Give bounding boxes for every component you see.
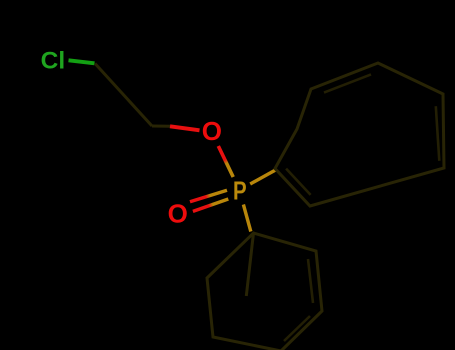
ring2 inner double bond line (bottom edge) xyxy=(284,316,310,341)
svg-text:Cl: Cl xyxy=(41,48,66,75)
bond C2-O1 (red half) xyxy=(170,126,200,130)
ring2 inner double bond line (right edge) xyxy=(308,259,313,303)
ring2 inner line at ipso xyxy=(246,233,253,296)
svg-text:P: P xyxy=(233,176,247,205)
double bond P=O2 line 1 xyxy=(190,190,227,202)
svg-text:O: O xyxy=(168,198,188,228)
ring1 inner double bond line (top edge) xyxy=(324,74,371,92)
benzene ring1 (right phenyl) outline xyxy=(275,63,444,206)
ring1 inner double bond line (lower-left edge) xyxy=(286,169,311,195)
bond C1-C2 xyxy=(95,64,152,127)
bond Cl-C1 (green) xyxy=(69,60,95,63)
bond C2-O1 (carbon half, dark) xyxy=(152,125,170,128)
double bond P=O2 line 2 xyxy=(193,199,228,211)
benzene ring2 (lower phenyl) outline xyxy=(207,233,322,350)
ring1 inner double bond line (right edge) xyxy=(436,106,440,161)
bond P-C(ipso ring2) xyxy=(243,205,250,232)
svg-text:O: O xyxy=(202,116,222,146)
bond P-C(ipso ring1) xyxy=(250,170,275,184)
bond O1-P xyxy=(218,146,233,177)
